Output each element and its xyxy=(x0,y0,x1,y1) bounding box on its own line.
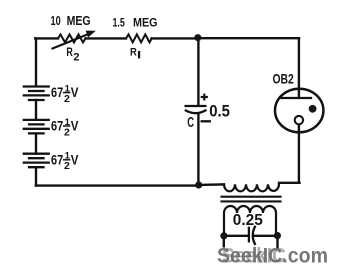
wire: top-left horizontal segment xyxy=(35,37,58,39)
wire: left vertical above battery stack xyxy=(35,38,37,86)
inductor T1 secondary winding xyxy=(224,206,276,236)
tube V1 gas dot xyxy=(309,105,317,113)
tube V1 anode plate xyxy=(282,97,312,99)
svg-text:V: V xyxy=(71,84,79,100)
tube V1 cathode lead xyxy=(298,125,300,183)
wire: bottom junction to transformer primary xyxy=(199,183,224,186)
wire: tube down to transformer right corner xyxy=(279,182,300,184)
resistor R2 (variable, 10 MEG) xyxy=(53,31,95,48)
capacitor C (0.5, polarized) xyxy=(186,106,206,113)
B3 value label: 67 1/2 V xyxy=(51,151,79,173)
node: tank right output dot xyxy=(274,232,281,239)
svg-text:67: 67 xyxy=(51,84,63,100)
svg-text:R: R xyxy=(130,47,137,59)
wire: tank bottom left segment xyxy=(224,235,248,237)
wire: between battery B2 and B3 xyxy=(35,134,37,154)
transformer T1 core xyxy=(222,197,281,202)
svg-text:MEG: MEG xyxy=(67,14,91,28)
wire: right output stub xyxy=(276,236,278,249)
wire: middle vertical above capacitor C xyxy=(197,38,199,106)
svg-text:2: 2 xyxy=(64,93,70,105)
wire: segment between R2 and R1 xyxy=(86,37,127,39)
svg-text:2: 2 xyxy=(73,51,79,63)
tube V1 cathode circle xyxy=(295,116,303,124)
svg-text:OB2: OB2 xyxy=(273,72,294,87)
wire: middle vertical below capacitor C xyxy=(197,114,199,186)
wire: between battery B1 and B2 xyxy=(35,100,37,120)
B2 value label: 67 1/2 V xyxy=(51,117,79,139)
R1 designator label xyxy=(130,47,140,59)
wire: left output stub xyxy=(223,236,225,246)
B1 value label: 67 1/2 V xyxy=(51,83,79,105)
svg-text:MEG: MEG xyxy=(133,15,158,29)
tube V1 anode lead xyxy=(298,38,300,98)
battery B1 (67 1/2 V) xyxy=(24,87,49,101)
node: top junction dot xyxy=(194,34,201,41)
C polarity label: - xyxy=(202,120,210,122)
node: bottom junction dot xyxy=(195,181,202,188)
svg-text:0.5: 0.5 xyxy=(209,103,230,121)
svg-text:SeekIC: SeekIC xyxy=(222,244,286,267)
tube V1 envelope (OB2 regulator) xyxy=(275,89,323,133)
wire: bottom-left horizontal xyxy=(36,184,198,186)
wire: tank bottom right segment xyxy=(255,235,278,237)
wire: top junction to top-right corner xyxy=(198,37,299,39)
svg-text:C: C xyxy=(187,115,194,131)
wire: R1 to top junction xyxy=(152,37,198,39)
capacitor C2 (0.25) xyxy=(249,227,255,244)
svg-text:R: R xyxy=(66,47,73,59)
resistor R1 (1.5 MEG) xyxy=(126,34,152,42)
battery B3 (67 1/2 V) xyxy=(24,154,49,168)
inductor T1 primary winding xyxy=(224,184,279,192)
svg-text:1.5: 1.5 xyxy=(113,15,125,29)
node: tank left output dot xyxy=(220,232,227,239)
wire: left vertical below battery stack xyxy=(35,168,37,186)
svg-text:10: 10 xyxy=(51,14,61,28)
battery B2 (67 1/2 V) xyxy=(24,120,49,133)
C polarity label: + xyxy=(201,94,208,101)
svg-text:0.25: 0.25 xyxy=(233,212,263,229)
R2 designator label xyxy=(66,47,79,63)
